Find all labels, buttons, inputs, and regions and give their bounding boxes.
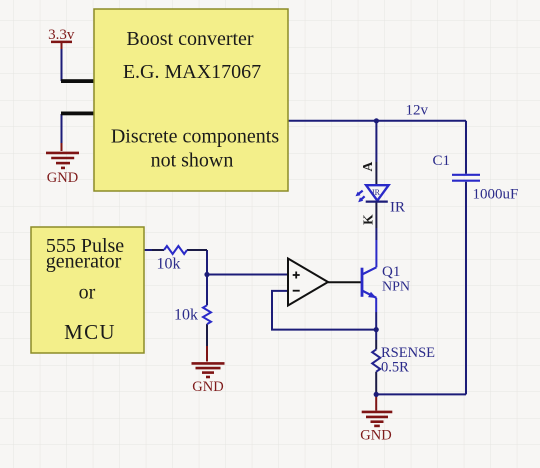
svg-text:or: or [79,282,96,304]
svg-text:10k: 10k [174,306,198,323]
svg-text:not shown: not shown [151,150,234,172]
svg-text:GND: GND [360,428,391,444]
svg-text:GND: GND [192,379,223,395]
svg-text:A: A [360,161,375,171]
svg-text:Q1: Q1 [382,264,400,280]
svg-text:Boost converter: Boost converter [126,28,254,50]
svg-text:10k: 10k [157,256,181,273]
svg-text:Discrete components: Discrete components [111,126,279,148]
svg-text:GND: GND [47,170,78,186]
svg-text:1000uF: 1000uF [473,187,519,203]
svg-text:NPN: NPN [382,280,410,295]
svg-text:MCU: MCU [64,320,116,344]
svg-text:IR: IR [372,188,381,197]
svg-text:K: K [361,214,376,225]
svg-text:generator: generator [46,251,122,273]
svg-text:C1: C1 [433,153,451,169]
svg-text:0.5R: 0.5R [381,360,409,376]
svg-text:12v: 12v [406,103,429,119]
svg-text:3.3v: 3.3v [48,27,75,43]
svg-text:E.G. MAX17067: E.G. MAX17067 [123,61,261,83]
svg-text:IR: IR [390,200,405,216]
